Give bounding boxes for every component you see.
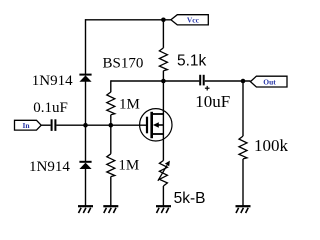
resistor R1 1M upper zigzag: [107, 92, 115, 115]
port flag Out: [250, 76, 287, 87]
label 0.1uF: [33, 100, 68, 116]
svg-text:100k: 100k: [254, 136, 289, 155]
junction node input/1M: [109, 123, 114, 128]
wire top rail Vcc: [86, 19, 171, 21]
wire left vertical top (Vcc to D1): [85, 19, 87, 74]
wire left vertical bottom (D2 to ground): [85, 169, 87, 206]
svg-text:In: In: [22, 121, 30, 130]
resistor R3 5.1k lead top: [162, 20, 164, 48]
label 5.1k: [177, 52, 207, 69]
label 1N914 upper: [32, 73, 73, 89]
capacitor C1 0.1uF left wire: [41, 124, 50, 126]
svg-text:1N914: 1N914: [29, 159, 70, 175]
capacitor C2 plus sign: [205, 86, 210, 91]
resistor R4 100k lead bottom: [242, 159, 244, 206]
junction node input/diodes: [83, 123, 88, 128]
ground GND2 (1M branch): [103, 206, 118, 213]
wire drain-source column through Q1: [162, 81, 164, 161]
transistor Q1 gate bar: [146, 117, 148, 134]
svg-text:5.1k: 5.1k: [177, 52, 207, 69]
resistor R4 100k zigzag: [239, 136, 247, 159]
svg-text:Out: Out: [263, 77, 276, 86]
svg-text:1N914: 1N914: [32, 73, 73, 89]
port flag In: [15, 120, 42, 130]
resistor R2 1M lower lead bottom: [110, 177, 112, 206]
svg-text:5k-B: 5k-B: [174, 190, 206, 207]
label 1M lower: [118, 158, 139, 174]
capacitor C2 10uF plates: [200, 75, 204, 86]
diode D2 1N914 (cathode up): [79, 162, 91, 169]
junction node out: [241, 79, 246, 84]
potentiometer VR1 wiper arrow: [158, 161, 170, 181]
resistor R1 1M upper lead bottom: [110, 115, 112, 125]
label BS170: [103, 55, 144, 71]
label 100k: [254, 136, 289, 155]
label 10uF: [195, 92, 230, 111]
transistor Q1 BS170 body circle: [140, 109, 172, 141]
svg-text:1M: 1M: [119, 96, 140, 112]
junction node Vcc/5.1k: [161, 18, 166, 23]
resistor R2 1M lower zigzag: [107, 154, 115, 177]
wire left vertical mid (D1 to input node to D2): [85, 82, 87, 162]
ground GND4 (100k branch): [236, 206, 251, 213]
junction node drain: [161, 79, 166, 84]
label 5k-B: [174, 190, 206, 207]
svg-text:Vcc: Vcc: [187, 15, 200, 24]
transistor Q1 channel bar: [150, 112, 153, 138]
transistor Q1 source tap: [152, 133, 164, 135]
resistor R2 1M lower lead top: [110, 125, 112, 154]
wire input net (C1 to gate): [56, 124, 146, 126]
svg-text:10uF: 10uF: [195, 92, 230, 111]
svg-text:0.1uF: 0.1uF: [33, 100, 68, 116]
wire C2 to out node: [205, 80, 251, 82]
resistor R1 1M upper lead top: [110, 80, 112, 92]
svg-text:1M: 1M: [118, 158, 139, 174]
resistor R4 100k lead top: [242, 81, 244, 136]
resistor R3 5.1k zigzag: [159, 48, 167, 71]
label 1M upper: [119, 96, 140, 112]
ground GND1 (diode branch): [78, 206, 93, 213]
label 1N914 lower: [29, 159, 70, 175]
potentiometer VR1 5k-B zigzag: [159, 161, 167, 187]
wire drain rail (1M top to C2): [111, 80, 200, 82]
power flag Vcc: [171, 15, 208, 25]
svg-text:BS170: BS170: [103, 55, 144, 71]
diode D1 1N914 (cathode up): [79, 75, 91, 82]
ground GND3 (pot branch): [156, 206, 171, 213]
transistor Q1 drain tap: [152, 113, 164, 115]
capacitor C1 0.1uF plates: [52, 119, 56, 131]
potentiometer VR1 lead bottom: [162, 186, 164, 206]
resistor R3 5.1k lead bottom: [162, 71, 164, 81]
transistor Q1 body arrow: [153, 122, 164, 128]
